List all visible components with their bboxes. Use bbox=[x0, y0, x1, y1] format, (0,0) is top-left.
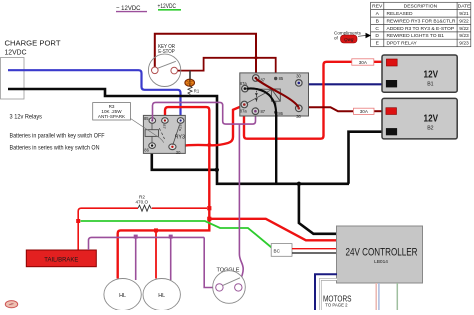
toggle switch bbox=[213, 268, 246, 304]
wire: dark red fuse to B2+ bbox=[374, 110, 388, 112]
svg-text:86: 86 bbox=[278, 111, 283, 116]
pin 30 bbox=[169, 144, 176, 150]
node green tap bbox=[76, 219, 80, 223]
relay RY3 bbox=[143, 115, 185, 154]
motors label bbox=[323, 295, 352, 309]
lamp HL2 bbox=[143, 279, 180, 311]
svg-text:B2: B2 bbox=[427, 126, 433, 132]
svg-text:REWIRED RY3 FOR B1&CTLR: REWIRED RY3 FOR B1&CTLR bbox=[387, 19, 456, 25]
svg-text:Qwg: Qwg bbox=[344, 37, 354, 42]
svg-text:9/23: 9/23 bbox=[459, 33, 469, 39]
battery B1 bbox=[382, 55, 457, 92]
wire: purple to toggle left bbox=[204, 237, 214, 287]
wire: blue charge+ to RY3 87a bbox=[8, 70, 181, 120]
wire: red RY3-87 feed / main vertical bbox=[118, 107, 210, 278]
svg-text:470.O: 470.O bbox=[136, 200, 149, 205]
junction black bus controller bbox=[297, 182, 301, 186]
wire: purple RY3-85 to DPDT 87b bbox=[153, 102, 256, 124]
wire: dark red pole 87 to 30 bbox=[256, 79, 298, 107]
pin 86 bbox=[149, 143, 156, 149]
armature dashed bbox=[159, 128, 164, 139]
svg-text:86: 86 bbox=[144, 147, 149, 152]
pin 87a left bbox=[242, 85, 249, 92]
svg-text:E-STOP: E-STOP bbox=[158, 49, 175, 55]
svg-text:REWIRED LIGHTS TO B1: REWIRED LIGHTS TO B1 bbox=[387, 33, 445, 39]
lamp HL1 bbox=[104, 279, 141, 311]
svg-text:ANTI-SPARK: ANTI-SPARK bbox=[98, 114, 126, 119]
pin 87a bbox=[177, 118, 184, 124]
fuse R1 bbox=[185, 79, 200, 95]
wire: thin dark BC to controller bbox=[292, 252, 337, 254]
lever B bbox=[246, 90, 271, 104]
wire: black RY3-86 to bus bbox=[152, 148, 216, 170]
svg-text:LB014: LB014 bbox=[374, 259, 388, 265]
coil U2 bbox=[271, 89, 280, 101]
pin 87a bottom bbox=[241, 101, 248, 108]
svg-text:24V CONTROLLER: 24V CONTROLLER bbox=[346, 247, 418, 259]
svg-text:CHARGE PORT: CHARGE PORT bbox=[5, 39, 61, 48]
svg-text:12VDC: 12VDC bbox=[5, 48, 27, 57]
wire: red R2 tail feed bbox=[78, 208, 138, 250]
svg-text:+12VDC: +12VDC bbox=[158, 3, 177, 10]
wire: black pole 87a to 86 bbox=[247, 88, 277, 113]
svg-text:RELEASED: RELEASED bbox=[387, 11, 414, 17]
wire: pink motor lead bbox=[375, 283, 377, 310]
lever bbox=[173, 125, 180, 145]
wire: red DPDT 87a-btm second drop to RY3 30 arc bbox=[177, 106, 243, 147]
wire: green accessory bbox=[81, 221, 272, 248]
pin 30 top bbox=[296, 80, 303, 87]
junction black bus RY3 bbox=[215, 168, 219, 172]
wire: navy controller aux bbox=[315, 274, 337, 310]
pin 85 bbox=[274, 77, 277, 80]
node purple HL1 bbox=[134, 235, 138, 239]
svg-text:30A: 30A bbox=[359, 60, 368, 65]
callout R3 bbox=[93, 103, 164, 143]
svg-text:30A: 30A bbox=[360, 109, 369, 114]
svg-text:30: 30 bbox=[296, 114, 301, 119]
wire: black DPDT 86 to bus bbox=[275, 112, 277, 183]
relay U2 DPDT bbox=[240, 73, 309, 119]
wire: black bus to controller bbox=[299, 184, 337, 234]
svg-text:12V: 12V bbox=[424, 69, 439, 81]
svg-text:87a: 87a bbox=[240, 81, 248, 86]
svg-text:HL: HL bbox=[158, 293, 165, 299]
battery B2 bbox=[382, 98, 457, 138]
wire: white motor wire bbox=[320, 279, 337, 310]
revision table bbox=[371, 2, 471, 46]
wire: thin red BC to controller bbox=[292, 248, 337, 250]
svg-text:30: 30 bbox=[176, 150, 181, 155]
legend +12VDC bbox=[158, 3, 182, 10]
fuse F1 30A bbox=[352, 59, 374, 65]
svg-text:9/23: 9/23 bbox=[459, 41, 469, 47]
pin 86 bbox=[274, 111, 277, 114]
node junction controller feed bbox=[207, 217, 211, 221]
pin 85 bbox=[149, 118, 156, 124]
box TAIL/BRAKE bbox=[26, 250, 96, 267]
svg-text:R1: R1 bbox=[194, 89, 200, 94]
svg-text:DESCRIPTION: DESCRIPTION bbox=[404, 4, 438, 10]
wire: purple tail return bbox=[89, 237, 205, 250]
svg-text:87: 87 bbox=[162, 124, 167, 128]
pin 30 bottom bbox=[296, 105, 303, 112]
armature dashes bbox=[255, 91, 257, 102]
wire: red HL2 drop bbox=[155, 230, 157, 278]
wire: black charge- main ground bus bbox=[8, 89, 349, 184]
svg-text:HL: HL bbox=[119, 293, 126, 299]
legend -12VDC bbox=[116, 5, 147, 12]
pin 87 top bbox=[253, 75, 260, 82]
logo bbox=[5, 301, 17, 308]
wire: purple HL2 drop bbox=[170, 237, 172, 280]
node key/85 crossing bbox=[254, 56, 257, 59]
wire: purple HL1 drop bbox=[135, 237, 137, 280]
wire: navy B1- to DPDT 30 bbox=[302, 83, 390, 85]
wire: black B2- drop bbox=[349, 132, 391, 184]
wire: red fuse to B1+ bbox=[374, 61, 388, 63]
node arc/main red junction bbox=[207, 143, 211, 147]
left notes bbox=[10, 115, 105, 152]
wire: pale blue motor lead bbox=[378, 283, 380, 310]
wire: dark red key left to DPDT 87 bbox=[155, 34, 256, 75]
svg-text:B: B bbox=[376, 19, 379, 25]
wire: red main to controller bbox=[209, 219, 337, 241]
svg-text:C: C bbox=[375, 26, 379, 32]
svg-text:BC: BC bbox=[274, 249, 281, 254]
svg-text:87a: 87a bbox=[240, 109, 248, 114]
svg-text:3 12v Relays: 3 12v Relays bbox=[10, 115, 43, 121]
svg-text:87: 87 bbox=[261, 109, 266, 114]
wire: pale green motor lead bbox=[396, 283, 398, 310]
svg-text:DATE: DATE bbox=[458, 4, 471, 10]
box BC converter bbox=[271, 244, 292, 257]
svg-text:ADDED R3 TO RY3 & E-STOP: ADDED R3 TO RY3 & E-STOP bbox=[387, 26, 455, 32]
svg-text:MOTORS: MOTORS bbox=[323, 295, 352, 304]
compliments note bbox=[334, 31, 371, 44]
node junction HL2 bbox=[154, 228, 158, 232]
pin 87 bbox=[162, 118, 169, 124]
fuse F2 30A bbox=[354, 108, 375, 114]
wire: dark red DPDT 30-btm to B2+ via fuse bbox=[305, 107, 353, 111]
charge port box bbox=[1, 58, 25, 100]
svg-text:Batteries in series with key s: Batteries in series with key switch ON bbox=[10, 146, 100, 152]
svg-text:B1: B1 bbox=[427, 82, 433, 88]
node junction R2 bbox=[207, 206, 211, 210]
svg-text:30: 30 bbox=[296, 74, 301, 79]
lever A bbox=[247, 88, 271, 90]
pin 87 bottom bbox=[252, 108, 259, 115]
svg-text:12V: 12V bbox=[424, 113, 439, 125]
wire: purple branch to toggle right bbox=[239, 124, 244, 284]
svg-text:DPDT RELAY: DPDT RELAY bbox=[387, 41, 418, 47]
svg-text:TO PAGE 2: TO PAGE 2 bbox=[325, 303, 347, 309]
wire: dark red key right to DPDT 85 bbox=[178, 58, 276, 76]
svg-text:Batteries in parallel with key: Batteries in parallel with key switch OF… bbox=[10, 134, 105, 140]
resistor R2 bbox=[136, 195, 208, 212]
key switch U-KEY bbox=[148, 44, 180, 87]
charge port label bbox=[5, 39, 61, 57]
svg-text:REV: REV bbox=[372, 4, 383, 10]
node purple HL2 bbox=[169, 235, 173, 239]
svg-text:85: 85 bbox=[279, 76, 284, 81]
svg-text:9/22: 9/22 bbox=[459, 19, 469, 25]
svg-text:D: D bbox=[375, 33, 379, 39]
wire: red DPDT 87a-btm to B1+ via fuse bbox=[244, 62, 352, 139]
svg-text:9/21: 9/21 bbox=[459, 11, 469, 17]
svg-text:9/22: 9/22 bbox=[459, 26, 469, 32]
controller U3 bbox=[337, 226, 423, 283]
coil RY3 bbox=[145, 130, 158, 137]
wire: R1 stub bbox=[189, 71, 191, 80]
svg-text:TAIL/BRAKE: TAIL/BRAKE bbox=[44, 257, 78, 263]
